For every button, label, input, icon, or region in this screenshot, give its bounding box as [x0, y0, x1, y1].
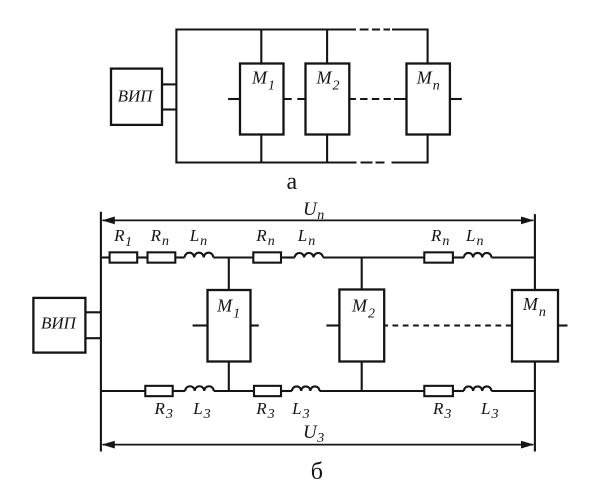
svg-text:L3: L3 [480, 399, 498, 422]
svg-text:Rn: Rn [255, 226, 274, 249]
wire: M2 bottom riser (fig a) [326, 135, 328, 163]
module M1 box (fig b) [208, 290, 251, 362]
svg-text:Mn: Mn [522, 294, 546, 320]
svg-text:M1: M1 [216, 296, 240, 322]
svg-text:Rn: Rn [430, 226, 449, 249]
wire: M1 right stub (fig b) [251, 324, 259, 326]
wire: VIP upper output stub (fig a) [162, 83, 176, 85]
dimension arrow line U3 (fig b) [103, 444, 534, 446]
resistor R1 box (fig b top rail) [110, 252, 138, 262]
wire: Mn right stub (fig a) [450, 98, 462, 100]
module M2 box (fig a) [306, 64, 350, 135]
wire: top rail segment left vertical to R1 (fig b) [101, 256, 110, 258]
wire: M1 bottom riser (fig a) [260, 135, 262, 163]
wire: bottom rail segment R3-2 to L3-2 (fig b) [281, 390, 292, 392]
wire: bottom rail segment R3-3 to L3-3 (fig b) [453, 390, 464, 392]
arrowhead right of Un dimension [521, 217, 534, 225]
svg-text:а: а [287, 169, 298, 195]
wire: M1 left stub (fig a) [228, 98, 240, 100]
module Mn box (fig b) [512, 290, 558, 362]
svg-text:Mn: Mn [416, 68, 440, 94]
wire: top rail segment Ln3 to right vertical (fig b) [491, 256, 535, 258]
resistor Rn first box (fig b top rail) [148, 252, 176, 262]
wire: bottom bus dashed part (fig a) [361, 161, 385, 163]
wire: bottom rail segment L3-1 across M1 junction to R3-2 (fig b) [214, 390, 254, 392]
inductor Ln first coil (fig b top rail) [185, 253, 214, 258]
resistor R3 second box (fig b bottom rail) [254, 386, 281, 396]
svg-text:R1: R1 [113, 226, 132, 250]
wire: left vertical bus (fig a) [175, 29, 177, 164]
wire: M2 right stub and dashed link to Mn (fig b) [384, 324, 512, 326]
wire: M2 top riser (fig b) [361, 258, 363, 290]
module M2 box (fig b) [339, 290, 384, 362]
svg-text:Ln: Ln [465, 226, 483, 249]
power source box VIP (fig a) [111, 69, 162, 125]
svg-text:Ln: Ln [297, 226, 315, 249]
wire: Mn right stub (fig b) [558, 324, 568, 326]
svg-text:ВИП: ВИП [118, 86, 155, 105]
wire: right vertical bus lower (fig b) [534, 362, 536, 452]
wire: left vertical bus (fig b) [100, 212, 102, 452]
inductor Ln third coil (fig b top rail) [464, 253, 492, 258]
wire: M1 bottom riser (fig b) [228, 362, 230, 392]
resistor Rn second box (fig b top rail) [253, 252, 281, 262]
dimension arrow line Un (fig b) [103, 219, 534, 221]
wire: top rail segment Rn3 to Ln3 (fig b) [453, 256, 464, 258]
resistor R3 third box (fig b bottom rail) [424, 386, 453, 396]
arrowhead left of U3 dimension [102, 441, 115, 449]
svg-text:L3: L3 [192, 399, 210, 422]
svg-text:M2: M2 [351, 296, 375, 322]
wire: M2 bottom riser (fig b) [361, 362, 363, 392]
wire: top bus dashed part (fig a) [360, 28, 390, 30]
wire: M2 left stub (fig b) [326, 324, 339, 326]
svg-text:ВИП: ВИП [41, 314, 78, 333]
wire: top bus right part into Mn riser (fig a) [392, 30, 428, 64]
wire: VIP upper output stub (fig b) [85, 311, 101, 313]
module M1 box (fig a) [240, 64, 284, 135]
svg-text:Rn: Rn [150, 226, 169, 249]
wire: bottom rail segment R3-1 to L3-1 (fig b) [173, 390, 186, 392]
svg-text:R3: R3 [255, 399, 274, 422]
arrowhead left of Un dimension [102, 217, 115, 225]
wire: top rail segment Ln1 across M1 junction to Rn2 (fig b) [213, 256, 253, 258]
svg-text:Ln: Ln [189, 226, 207, 249]
wire: M1 top riser (fig a) [260, 30, 262, 64]
wire: VIP lower output stub (fig a) [162, 108, 176, 110]
inductor Ln second coil (fig b top rail) [295, 253, 323, 258]
svg-text:Un: Un [303, 199, 324, 223]
resistor Rn third box (fig b top rail) [424, 252, 453, 262]
inductor L3 third coil (fig b bottom rail) [464, 386, 492, 391]
inductor L3 second coil (fig b bottom rail) [292, 386, 320, 391]
wire: bottom rail segment L3-2 across M2 junction to R3-3 (fig b) [320, 390, 425, 392]
wire: dash between M1 and M2 (fig a) [284, 98, 306, 100]
svg-text:U3: U3 [303, 422, 324, 446]
wire: top rail segment Ln2 across M2 junction to Rn3 (fig b) [323, 256, 424, 258]
wire: dashed link M2 to Mn (fig a) [349, 98, 406, 100]
svg-text:б: б [311, 459, 323, 485]
wire: M2 top riser (fig a) [326, 30, 328, 64]
wire: VIP lower output stub (fig b) [85, 337, 101, 339]
wire: bottom rail segment left vertical to R3-1 (fig b) [101, 390, 145, 392]
svg-text:L3: L3 [291, 399, 309, 422]
inductor L3 first coil (fig b bottom rail) [185, 386, 214, 391]
wire: top rail segment Rn1 to Ln1 (fig b) [175, 256, 184, 258]
wire: bottom bus right part into Mn lower riser (fig a) [392, 135, 428, 163]
wire: M1 top riser (fig b) [228, 258, 230, 291]
wire: bottom rail segment L3-3 to right vertical (fig b) [491, 390, 535, 392]
svg-text:M2: M2 [316, 68, 340, 94]
wire: M1 left stub (fig b) [193, 324, 208, 326]
wire: top rail segment Rn2 to Ln2 (fig b) [281, 256, 295, 258]
svg-text:M1: M1 [251, 68, 275, 94]
resistor R3 first box (fig b bottom rail) [145, 386, 172, 396]
wire: right vertical bus upper (fig b) [534, 214, 536, 290]
power source box VIP (fig b) [33, 298, 85, 353]
wire: bottom bus solid part (fig a) [176, 161, 356, 163]
wire: top rail segment R1 to Rn1 (fig b) [137, 256, 147, 258]
module Mn box (fig a) [407, 64, 450, 135]
wire: top bus solid part (fig a) [176, 28, 356, 30]
arrowhead right of U3 dimension [521, 441, 534, 449]
svg-text:R3: R3 [432, 399, 451, 422]
svg-text:R3: R3 [154, 399, 173, 422]
